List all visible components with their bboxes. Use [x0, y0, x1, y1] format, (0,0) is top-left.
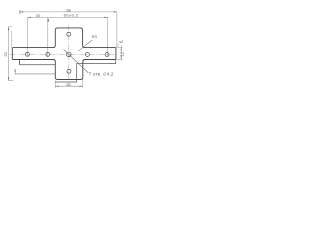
jog left lower arrow	[15, 69, 16, 72]
dimension 20/60 line	[27, 16, 107, 18]
extension line hole2	[47, 17, 49, 57]
svg-text:12: 12	[120, 51, 125, 56]
dim2 arrow right	[104, 17, 107, 18]
extension line left above part corner	[11, 31, 13, 48]
extension line hole6	[107, 17, 109, 56]
jog line left lower	[15, 69, 55, 74]
svg-text:52: 52	[3, 52, 8, 56]
hole center	[67, 52, 72, 57]
hole 2	[46, 52, 50, 56]
bottom dim 28 line	[55, 85, 83, 87]
leader 7 holes	[64, 49, 89, 73]
left dim 52 arrow top	[8, 27, 9, 30]
hole bottom	[67, 69, 71, 73]
right dim arrow top	[121, 48, 122, 51]
right dim tick top	[116, 47, 123, 49]
part outline	[12, 28, 116, 80]
hole 1	[25, 52, 29, 56]
hole top	[67, 32, 71, 36]
svg-text:R3: R3	[92, 34, 98, 39]
left dim tick bottom	[9, 79, 14, 81]
jog left upper arrow	[19, 60, 20, 63]
right dim tick bottom	[116, 58, 123, 60]
hole 6	[105, 53, 109, 57]
svg-text:s2: s2	[119, 40, 123, 44]
left dim 52 line	[8, 27, 10, 81]
dimension 96 line	[20, 11, 117, 13]
right dim 12 line	[120, 46, 122, 60]
leader R3	[78, 40, 92, 51]
leader s2 hook	[117, 44, 119, 47]
left dim tick top	[9, 26, 12, 28]
dim2 chain arrow at hole2	[47, 18, 49, 21]
extension line right edge top	[116, 12, 118, 48]
extension line hole1	[26, 17, 28, 56]
right dim arrow bottom	[121, 56, 122, 59]
jog line left upper	[20, 60, 56, 65]
centerline horizontal	[10, 53, 119, 55]
extension tick dim1 left	[19, 10, 21, 14]
svg-text:7 отв. ∅4,2: 7 отв. ∅4,2	[89, 71, 114, 76]
dim 96 arrow right	[114, 11, 117, 12]
bottom dim 28 ext right	[82, 77, 84, 88]
bottom dim arrow right	[80, 86, 83, 87]
centerline vertical	[68, 25, 70, 84]
jog line right network	[55, 60, 116, 82]
left dim 52 arrow bottom	[8, 77, 9, 80]
dim2 arrow left	[27, 17, 30, 18]
svg-text:60±0,2: 60±0,2	[64, 13, 79, 18]
bottom dim arrow left	[55, 86, 58, 87]
dim 96 arrow left	[20, 11, 23, 12]
bottom dim 28 ext left	[54, 80, 56, 87]
hole 4	[85, 53, 89, 57]
